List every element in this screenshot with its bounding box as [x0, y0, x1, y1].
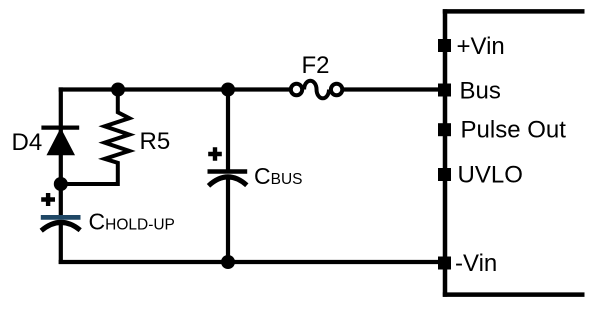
svg-text:Pulse Out: Pulse Out [461, 117, 567, 144]
resistor R5 (zigzag body and leads) [59, 90, 129, 185]
svg-text:R5: R5 [140, 128, 171, 155]
wire: top rail from left corner to fuse F2 [59, 87, 292, 91]
capacitor CHOLD-UP (curved bottom plate) [41, 222, 80, 230]
svg-text:+Vin: +Vin [457, 33, 505, 60]
fuse F2 (right terminal circle) [331, 84, 342, 95]
module box: bottom edge [443, 292, 585, 297]
pin Bus (square terminal) [438, 84, 451, 97]
svg-text:Bus: Bus [460, 78, 501, 105]
wire: CBUS branch from top rail to top plate [226, 90, 230, 173]
capacitor CBUS (straight top plate) [208, 169, 248, 174]
svg-text:F2: F2 [302, 52, 330, 79]
svg-text:D4: D4 [12, 129, 43, 156]
wire: top rail from fuse F2 to Bus pin [341, 87, 440, 91]
fuse F2 (left terminal circle) [291, 84, 302, 95]
diode D4 (anode triangle) [47, 129, 74, 155]
svg-text:-Vin: -Vin [455, 250, 497, 277]
pin +Vin (square terminal) [438, 39, 451, 52]
junction node: CBUS bottom on bottom rail [221, 255, 235, 269]
junction node: D4 anode / R5 bottom / CHOLD-UP top [54, 177, 68, 191]
capacitor CHOLD-UP (straight top plate, dark blue) [41, 215, 81, 220]
module box: top edge [443, 9, 585, 14]
fuse F2 (wave element) [304, 81, 329, 99]
svg-text:UVLO: UVLO [458, 162, 523, 189]
pin UVLO (square terminal) [438, 168, 451, 181]
capacitor CBUS (curved bottom plate) [209, 177, 247, 186]
wire: CBUS branch from curved plate to bottom rail [226, 177, 230, 264]
svg-text:CHOLD-UP: CHOLD-UP [89, 209, 175, 235]
capacitor CBUS plus polarity mark [208, 147, 222, 160]
module box: left edge [443, 9, 448, 297]
pin Pulse Out (square terminal) [438, 123, 451, 136]
junction node: CBUS top on bus rail [221, 83, 235, 97]
diode D4 (cathode bar) [41, 125, 79, 129]
capacitor CHOLD-UP plus polarity mark [41, 193, 55, 206]
wire: bottom rail from left branch to -Vin pin [59, 260, 440, 264]
junction node: R5 top on bus rail [111, 83, 125, 97]
svg-text:CBUS: CBUS [254, 163, 303, 189]
wire: left vertical branch (top wire corner down through D4 to CHOLD-UP top plate) [59, 87, 63, 216]
wire: left vertical branch below CHOLD-UP to bottom rail [59, 222, 63, 264]
pin -Vin (square terminal) [438, 257, 451, 270]
